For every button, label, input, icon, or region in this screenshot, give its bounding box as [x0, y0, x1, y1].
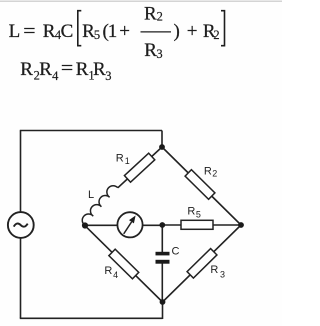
node: top — [159, 144, 165, 150]
svg-text:L: L — [9, 21, 21, 42]
svg-text:R: R — [76, 59, 89, 80]
svg-text:3: 3 — [156, 47, 162, 61]
wire: top horizontal — [20, 130, 162, 132]
svg-text:): ) — [174, 21, 180, 42]
svg-text:5: 5 — [196, 209, 201, 219]
svg-text:R: R — [204, 166, 212, 178]
wire: arm from top node to right node (R2 arm) — [162, 147, 241, 225]
svg-text:1: 1 — [125, 156, 130, 166]
svg-text:L: L — [88, 189, 94, 201]
node: bottom — [160, 299, 166, 305]
svg-text:2: 2 — [157, 10, 163, 24]
resistor R4 — [109, 249, 139, 279]
wire: left vertical lower (source to bottom corner) — [20, 238, 22, 319]
svg-text:R: R — [187, 205, 195, 217]
wire: center node down to capacitor — [161, 225, 163, 252]
svg-text:3: 3 — [105, 69, 111, 83]
node: center — [159, 222, 165, 228]
svg-text:R: R — [144, 40, 157, 61]
capacitor C plates — [156, 252, 170, 264]
svg-text:R: R — [116, 153, 124, 165]
inductor L coil — [82, 186, 118, 226]
wire: stub from bottom wire up to bottom node — [162, 302, 164, 319]
svg-text:1: 1 — [108, 21, 118, 42]
svg-text:3: 3 — [220, 270, 225, 280]
svg-text:4: 4 — [113, 270, 118, 280]
svg-text:C: C — [61, 21, 74, 42]
wire: capacitor down to bottom node — [161, 263, 163, 302]
wire: bottom horizontal — [20, 317, 163, 319]
svg-text:R: R — [104, 265, 112, 277]
svg-text:+: + — [119, 21, 130, 42]
svg-text:+: + — [187, 21, 198, 42]
svg-text:R: R — [210, 264, 218, 276]
galvanometer meter — [117, 212, 142, 237]
page top edge grey line — [0, 1, 282, 2]
svg-text:=: = — [61, 58, 73, 79]
svg-text:2: 2 — [212, 169, 217, 179]
node: right — [238, 222, 244, 228]
wire: galvanometer branch, left node to center node — [85, 224, 162, 226]
node: left — [82, 222, 88, 228]
wire: arm from top node to inductor (R1 arm) — [118, 147, 162, 188]
wire: stub from top wire down to top node — [161, 131, 163, 148]
wire: left vertical upper (top corner to source) — [20, 131, 22, 213]
svg-text:R: R — [93, 59, 106, 80]
svg-text:4: 4 — [52, 69, 59, 83]
equation 2: R2R4 = R1R3 — [20, 58, 111, 83]
wire: arm from left node to bottom node (R4 arm) — [85, 226, 163, 302]
svg-text:R: R — [20, 59, 33, 80]
svg-text:2: 2 — [213, 28, 219, 42]
resistor R2 — [185, 170, 215, 200]
svg-text:=: = — [23, 21, 35, 42]
wire: R5 branch, center node to right node — [162, 224, 241, 226]
svg-text:R: R — [144, 3, 157, 24]
svg-text:C: C — [172, 246, 180, 258]
equation 1: L = R4C [ R5 (1 + R2/R3 ) + R2 ] — [9, 3, 225, 61]
AC source — [8, 212, 34, 238]
resistor R5 — [181, 220, 213, 229]
wire: arm from right node to bottom node (R3 arm) — [163, 225, 242, 302]
resistor R3 — [187, 249, 217, 279]
svg-text:R: R — [43, 21, 56, 42]
resistor R1 — [124, 153, 154, 182]
svg-text:R: R — [39, 59, 52, 80]
svg-text:5: 5 — [94, 28, 100, 42]
